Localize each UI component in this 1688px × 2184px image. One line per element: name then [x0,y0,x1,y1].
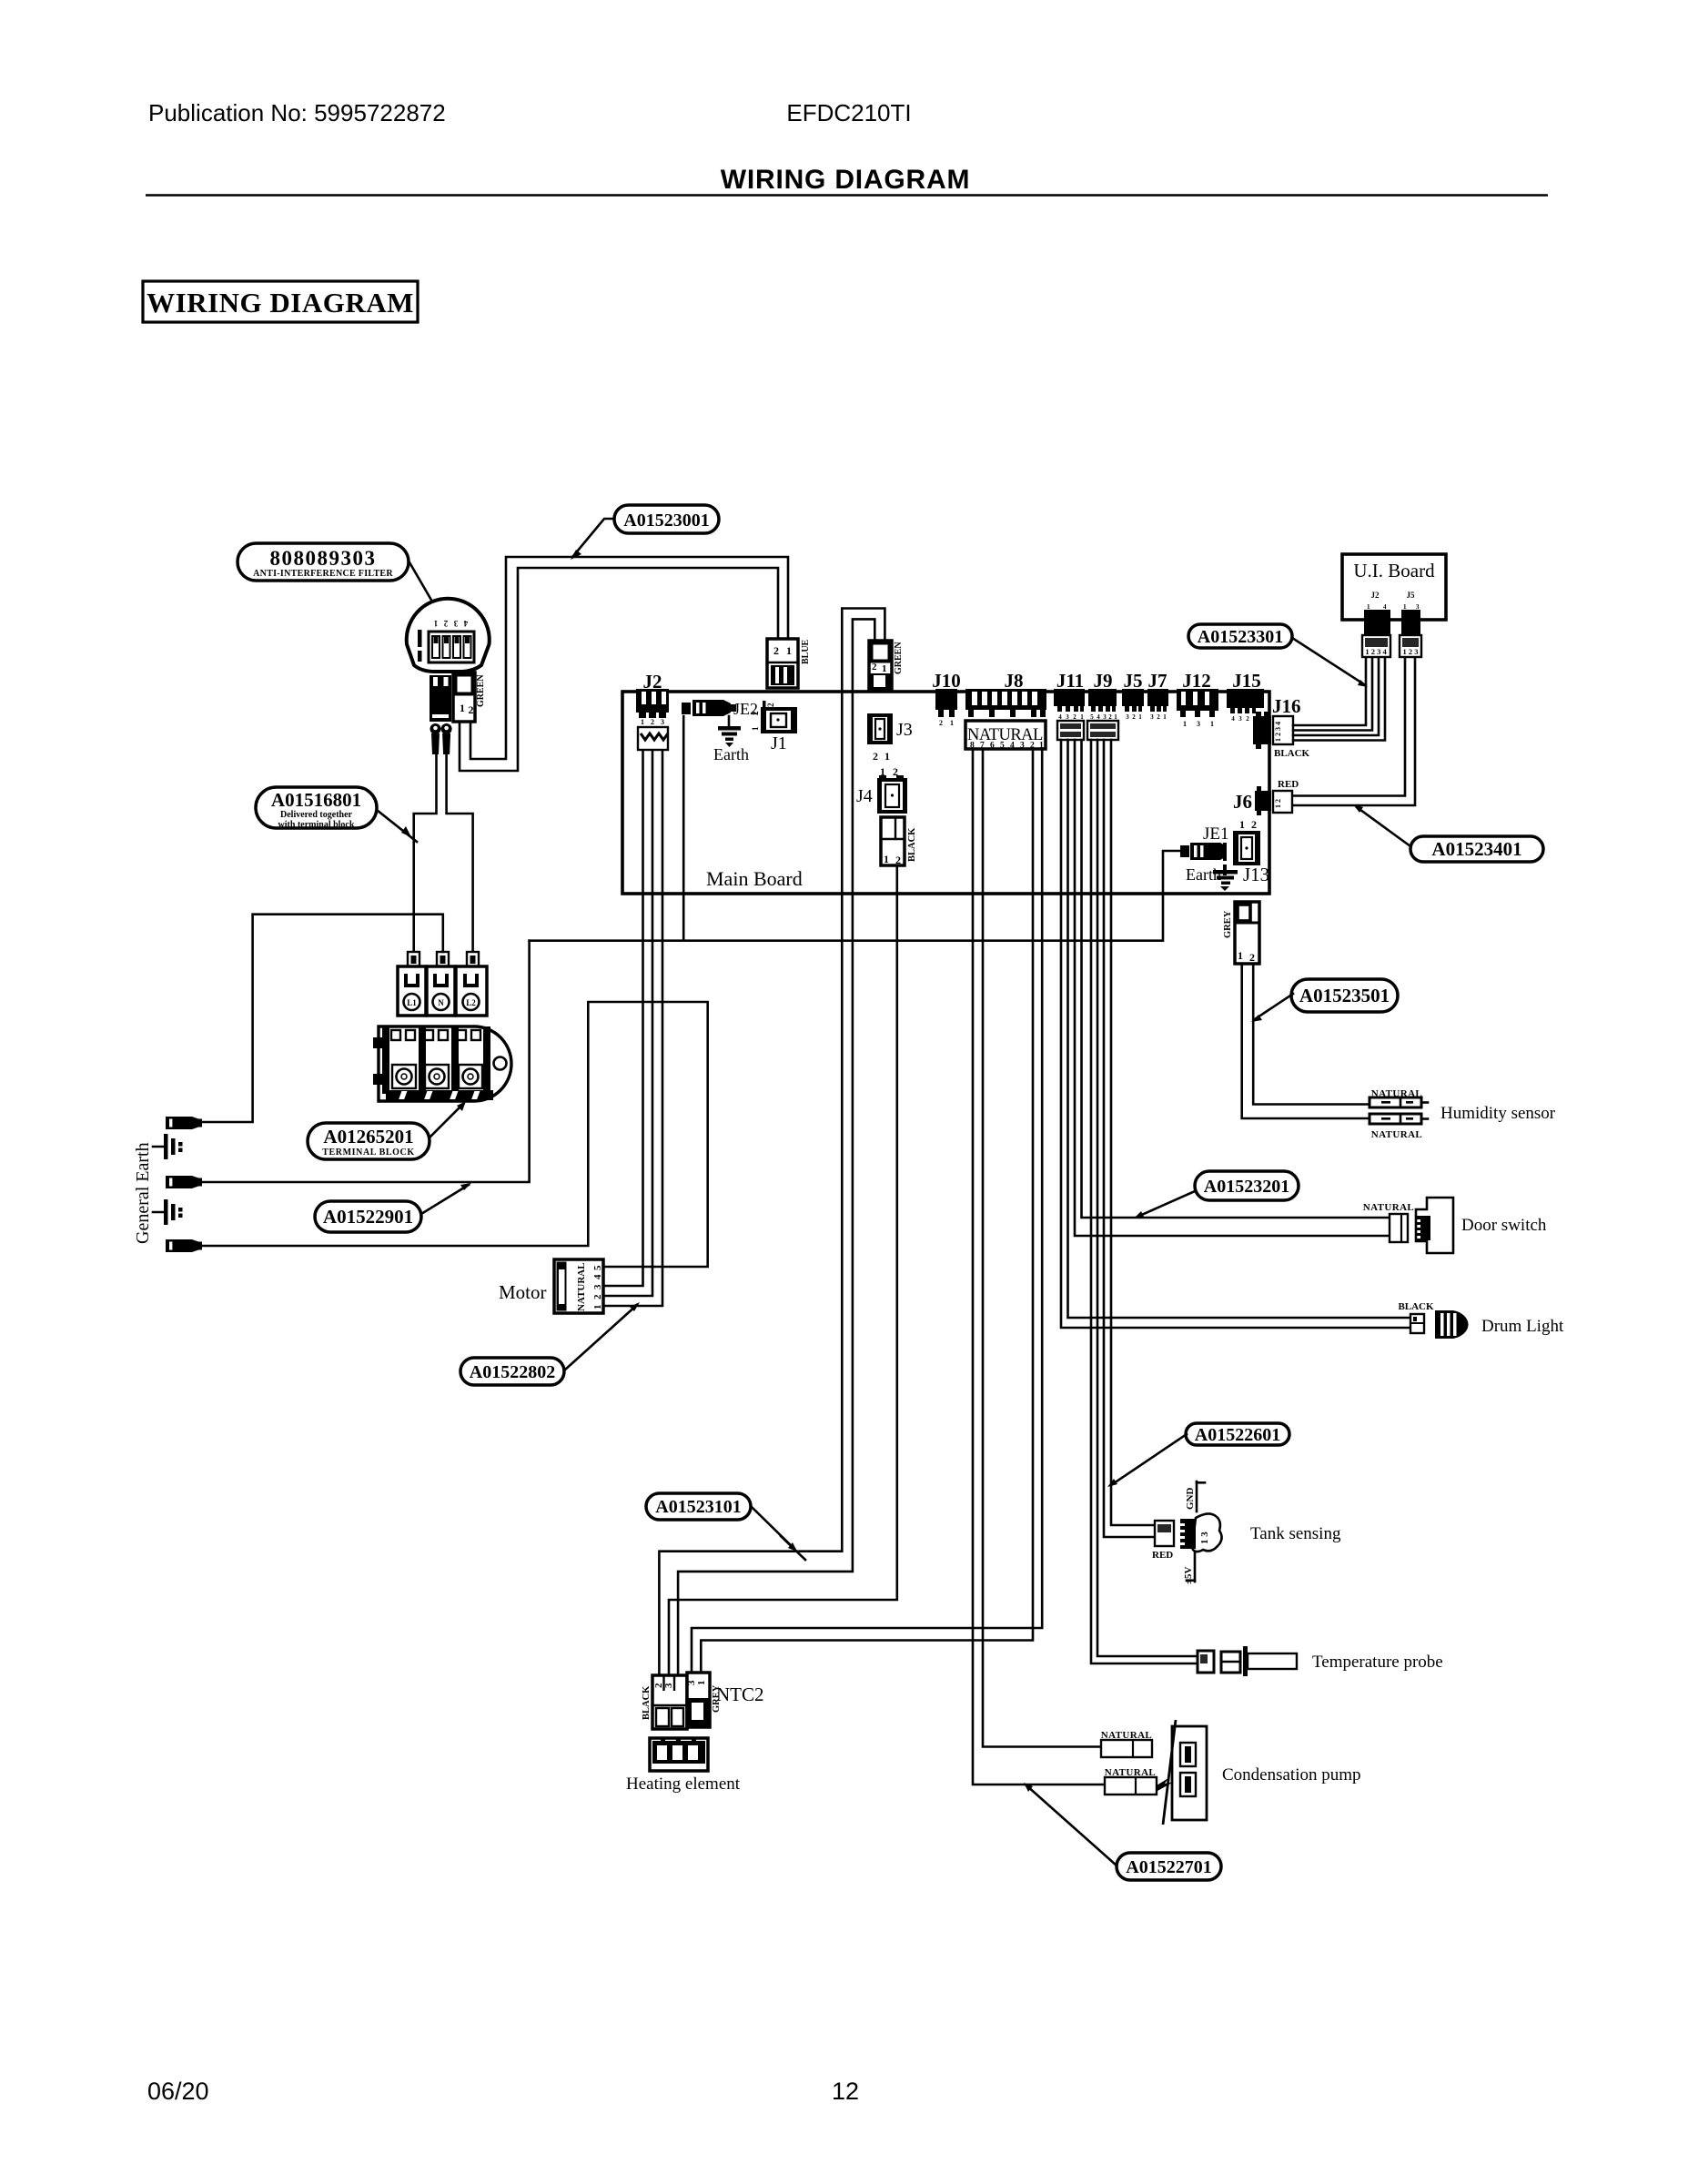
wire J11 pin2 to door switch lower [1075,740,1390,1236]
J7 connector [1147,689,1168,721]
svg-text:A01516801: A01516801 [271,789,361,811]
J10 connector [935,689,957,727]
svg-text:1: 1 [592,1305,603,1310]
wire NATURAL pin1 to NTC2 grey pin3 [692,749,1042,1673]
wire J11 pin1 to door switch upper [1082,740,1390,1218]
J13 connector [1233,831,1260,865]
svg-text:J5: J5 [1124,670,1143,692]
svg-text:A01265201: A01265201 [323,1126,413,1148]
J13 pin digits 1 2 [1239,818,1257,831]
svg-text:EFDC210TI: EFDC210TI [786,99,911,126]
svg-text:Earth: Earth [713,745,749,763]
svg-text:Heating element: Heating element [626,1774,741,1794]
callout A01522601 [1186,1423,1289,1445]
filter green connector pins 1 2 [453,672,475,722]
svg-text:3: 3 [1066,713,1069,721]
J11 mating connector box [1057,721,1084,740]
svg-text:5: 5 [1000,742,1005,751]
earth bus JE1 to spade2 [530,851,1180,941]
wire motor pin1 to J2 pin3 [603,750,662,1306]
wire spade2 to earth bus [201,941,530,1182]
terminal block screw 1 [392,1065,416,1088]
NTC2 grey connector [686,1673,710,1727]
NATURAL connector box at J8 [965,721,1046,751]
tank sensing contact block [1180,1519,1196,1549]
J1 connector [751,707,797,733]
svg-text:1: 1 [1183,720,1187,728]
svg-text:12: 12 [832,2078,859,2105]
JE1 earth symbol [1213,870,1238,891]
svg-text:3: 3 [1238,715,1242,723]
svg-text:1: 1 [433,619,438,628]
wire J11 pin3 to drum light upper [1068,740,1410,1318]
wire J9 pin1 to tank sensing upper [1111,740,1155,1525]
svg-text:1: 1 [1138,713,1142,721]
J9 connector [1088,689,1117,721]
svg-text:Delivered together: Delivered together [280,810,353,820]
svg-text:3: 3 [663,1683,674,1688]
svg-text:2: 2 [443,619,448,628]
terminal block screw 2 [425,1065,449,1088]
callout A01265201 terminal block [308,1123,430,1159]
terminal block body [373,1026,511,1101]
J9 mating connector box [1087,721,1118,740]
general earth spade 1 [166,1117,202,1129]
wire J6-2 to UI J5 [1293,657,1415,805]
boxed section title [143,281,418,322]
terminal block screw 3 [459,1065,482,1088]
svg-text:5: 5 [592,1265,603,1270]
svg-text:2: 2 [1251,818,1257,831]
wire filter green pin2 to BLUE connector (outer) [470,557,788,759]
drum light lamp [1435,1310,1469,1339]
svg-text:Publication No: 5995722872: Publication No: 5995722872 [148,99,446,126]
svg-text:1: 1 [950,719,954,727]
UI J5 pin digits [1403,603,1420,611]
svg-text:3: 3 [661,718,664,726]
door switch connector [1390,1214,1408,1242]
svg-text:1: 1 [786,644,792,657]
wire GREY pin2 to humidity sensor row1 [1253,964,1370,1105]
wire motor pin3 to J2 pin1 [603,750,643,1286]
wire BLACK connector to NTC2 pin3 [669,865,897,1675]
svg-text:1 3: 1 3 [1199,1532,1210,1544]
leader A01523501 [1251,994,1293,1022]
svg-text:JE1: JE1 [1203,824,1229,844]
svg-text:3: 3 [1103,713,1107,721]
svg-text:N: N [438,998,444,1007]
svg-text:J11: J11 [1056,670,1084,692]
svg-text:06/20: 06/20 [147,2078,209,2105]
GREY connector below J13 [1235,902,1259,964]
wire spade3 to motor pin5 earth [201,1002,708,1267]
door switch contact block [1416,1216,1430,1240]
U.I. Board box [1342,554,1446,620]
svg-text:2: 2 [1073,713,1076,721]
J11 connector [1054,689,1085,721]
svg-text:BLUE: BLUE [801,639,811,664]
wire spade1 to terminal N [201,915,443,1122]
leader A01523001 [571,519,614,560]
J8 connector [965,689,1046,727]
UI J5 connector [1400,610,1421,657]
BLUE connector at J1 [767,639,798,688]
callout A01522901 [315,1201,421,1232]
filter ring lug L2 [441,723,452,754]
svg-text:J7: J7 [1148,670,1167,692]
svg-text:A01523001: A01523001 [623,511,709,531]
callout A01523101 [646,1493,751,1520]
svg-text:4: 4 [1383,603,1387,611]
svg-text:L2: L2 [466,998,476,1007]
BLACK connector below J4 [881,817,905,866]
svg-text:1: 1 [1163,713,1167,721]
svg-text:2: 2 [873,750,878,763]
JE2 earth stub wire [682,716,685,941]
J5 connector [1122,689,1144,721]
svg-text:J1: J1 [771,733,787,753]
svg-text:2: 2 [872,662,877,672]
svg-text:TERMINAL BLOCK: TERMINAL BLOCK [322,1148,414,1158]
J12 connector [1177,689,1218,728]
svg-text:A01522601: A01522601 [1195,1425,1280,1445]
wire J9 pin5 to temperature probe lower [1091,740,1198,1663]
general earth fast-on tab 1 [153,1134,183,1159]
svg-text:J2: J2 [1371,591,1380,600]
svg-text:General Earth: General Earth [133,1142,153,1244]
svg-text:NTC2: NTC2 [716,1683,764,1705]
general earth spade 2 [166,1176,202,1188]
condensation pump connector upper [1101,1740,1152,1757]
svg-text:A01522901: A01522901 [323,1206,413,1228]
svg-text:1: 1 [1114,713,1117,721]
svg-text:5: 5 [1090,713,1094,721]
J3 pin digits 2 1 [873,750,890,763]
wire J16-3 to UI J2 [1293,657,1379,735]
leader A01265201 [430,1101,466,1137]
terminal block mounting hole [494,1057,507,1070]
svg-text:J16: J16 [1272,695,1301,717]
wire NATURAL pin7 to condensation pump upper [983,749,1101,1747]
callout A01523201 [1195,1171,1299,1200]
svg-text:2: 2 [751,711,760,715]
plug module L1 [398,952,426,1016]
svg-text:3: 3 [592,1284,603,1289]
svg-text:BLACK: BLACK [907,827,917,862]
general earth spade 3 [166,1239,202,1252]
JE2 earth spade [682,700,736,716]
callout A01523401 [1410,836,1543,862]
temperature probe body [1221,1646,1297,1676]
svg-text:2: 2 [766,703,775,707]
svg-text:4: 4 [463,619,468,628]
GREEN connector at board top [869,641,892,690]
svg-text:2: 2 [773,644,779,657]
callout A01522802 [460,1358,564,1385]
svg-text:WIRING DIAGRAM: WIRING DIAGRAM [147,287,414,318]
svg-text:1: 1 [882,663,887,674]
svg-text:2: 2 [592,1294,603,1299]
svg-text:J13: J13 [1243,864,1269,885]
anti-interference filter FL1 body [407,599,490,672]
header rule [146,194,1548,196]
svg-text:1 2 3: 1 2 3 [1403,647,1419,656]
svg-text:1: 1 [696,1681,707,1686]
wire filter green pin1 to BLUE connector (inner) [460,568,778,771]
svg-text:GREY: GREY [1223,910,1233,938]
leader A01523101 [751,1506,805,1560]
svg-text:2: 2 [939,719,943,727]
svg-text:3: 3 [1126,713,1129,721]
wire filter L2 to terminal L2 [447,754,473,952]
svg-text:2: 2 [1246,715,1249,723]
svg-text:with terminal block: with terminal block [278,820,355,830]
filter pin header with pins 1 2 3 4 [429,619,474,662]
svg-text:1: 1 [1239,818,1245,831]
UI J2 connector [1362,610,1390,657]
svg-text:2: 2 [1157,713,1160,721]
svg-text:GREEN: GREEN [476,674,486,707]
J3 connector [867,713,893,744]
svg-text:ANTI-INTERFERENCE FILTER: ANTI-INTERFERENCE FILTER [253,569,393,579]
callout A01516801 [256,787,377,830]
callout 808089303 anti-interference filter [238,543,409,581]
svg-text:2: 2 [651,718,654,726]
humidity sensor connector row2 [1370,1114,1428,1124]
J6 connector [1255,786,1292,815]
svg-text:J15: J15 [1232,670,1261,692]
door switch body [1416,1198,1453,1253]
plug module L2 [456,952,487,1016]
svg-text:J4: J4 [856,786,873,806]
svg-text:A01522701: A01522701 [1126,1857,1211,1877]
svg-text:1: 1 [884,750,890,763]
svg-text:4: 4 [1097,713,1100,721]
svg-text:BLACK: BLACK [642,1685,652,1720]
svg-text:4: 4 [592,1274,603,1279]
wire J9 pin4 to temperature probe upper [1097,740,1198,1656]
wire NATURAL pin2 to NTC2 grey pin1 [701,749,1033,1673]
svg-text:1: 1 [1238,949,1243,962]
svg-text:1: 1 [1210,720,1214,728]
tank sensing probe body [1192,1513,1222,1552]
leader 808089303 [409,562,444,622]
callout A01523301 [1188,624,1292,648]
svg-text:808089303: 808089303 [270,547,377,570]
svg-text:J5: J5 [1407,591,1416,600]
svg-text:A01523301: A01523301 [1198,627,1283,647]
svg-text:Tank sensing: Tank sensing [1250,1524,1341,1543]
svg-text:2: 2 [469,703,474,716]
svg-text:U.I. Board: U.I. Board [1353,560,1435,581]
wire filter L1 to terminal L1 [414,754,437,952]
JE2 pin marks [763,701,783,726]
temperature probe connector [1198,1651,1214,1673]
tank sensing RED connector [1155,1521,1174,1546]
JE1 earth spade [1180,843,1227,860]
svg-text:±5V: ±5V [1183,1566,1194,1584]
general earth fast-on tab 2 [153,1199,183,1225]
svg-text:A01523501: A01523501 [1299,985,1390,1006]
terminal block bottom hatch [386,1090,493,1100]
svg-text:1: 1 [1403,603,1407,611]
leader A01522901 [421,1183,471,1214]
svg-text:1: 1 [460,702,465,714]
svg-text:BLACK: BLACK [1398,1301,1434,1312]
svg-text:1: 1 [884,853,889,865]
svg-text:3: 3 [1020,742,1025,751]
svg-text:A01523101: A01523101 [655,1497,741,1517]
svg-text:2: 2 [1249,951,1255,964]
callout A01523501 [1291,979,1398,1012]
JE2 earth symbol [718,716,741,747]
svg-text:J8: J8 [1005,670,1024,692]
callout A01522701 [1117,1853,1221,1880]
main board outline [622,692,1269,894]
svg-text:1 2 3 4: 1 2 3 4 [1274,722,1282,742]
+5V lead tank sensing [1183,1552,1195,1584]
leader A01523401 [1353,804,1410,846]
svg-text:4: 4 [1231,715,1235,723]
svg-text:Earth: Earth [1186,865,1221,884]
svg-text:1 2 3 4: 1 2 3 4 [1365,647,1387,656]
wire J16-1 to UI J2 [1293,657,1366,725]
svg-text:NATURAL: NATURAL [1371,1129,1422,1140]
svg-text:1: 1 [1367,603,1370,611]
leader A01523301 [1292,638,1368,687]
wire J11 pin4 to drum light lower [1061,740,1410,1328]
svg-text:4: 4 [1058,713,1062,721]
wire GREY pin1 to humidity sensor row2 [1242,964,1370,1118]
svg-text:Condensation pump: Condensation pump [1222,1765,1361,1785]
svg-text:3: 3 [453,619,458,628]
svg-text:Humidity sensor: Humidity sensor [1440,1104,1556,1123]
svg-text:WIRING DIAGRAM: WIRING DIAGRAM [721,165,971,195]
motor connector [554,1259,603,1313]
plug module N [427,952,455,1016]
wire J6-1 to UI J5 [1293,657,1405,796]
svg-text:J10: J10 [932,670,961,692]
svg-text:A01522802: A01522802 [470,1362,555,1382]
heating element [650,1737,708,1771]
callout A01523001 [614,505,719,533]
wire J9 pin2 to tank sensing lower [1104,740,1155,1537]
svg-text:Motor: Motor [499,1281,547,1303]
wire NATURAL pin8 to condensation pump lower [973,749,1105,1785]
svg-text:J12: J12 [1182,670,1211,692]
svg-text:1: 1 [641,718,644,726]
humidity sensor connector row1 [1370,1097,1428,1107]
leader A01516801 [377,810,417,842]
leader A01522701 [1024,1783,1117,1865]
svg-text:1: 1 [1080,713,1084,721]
svg-text:BLACK: BLACK [1274,748,1310,759]
svg-text:3: 3 [1150,713,1154,721]
J16 connector [1253,712,1293,749]
svg-text:2: 2 [1132,713,1136,721]
svg-text:NATURAL: NATURAL [1363,1202,1414,1213]
J15 connector [1227,689,1264,723]
svg-text:RED: RED [1152,1550,1173,1561]
filter ring lug L1 [430,723,441,754]
svg-text:Drum Light: Drum Light [1481,1317,1564,1336]
J4 pin digits 1 2 [880,765,898,778]
svg-text:J9: J9 [1094,670,1113,692]
svg-text:GREEN: GREEN [894,642,904,674]
GND lead tank sensing [1185,1481,1205,1512]
svg-text:4: 4 [1010,742,1015,751]
leader A01523201 [1134,1191,1195,1218]
svg-text:Temperature probe: Temperature probe [1312,1653,1443,1672]
svg-text:GND: GND [1185,1488,1196,1511]
condensation pump body [1157,1720,1207,1825]
svg-text:Main Board: Main Board [706,867,803,890]
svg-text:RED: RED [1278,779,1299,790]
wire green loop outer to NTC2 pin2 [659,609,884,1676]
wire motor pin2 to J2 pin2 [603,750,652,1296]
svg-text:A01523201: A01523201 [1204,1177,1289,1197]
svg-text:L1: L1 [407,998,417,1007]
leader A01522601 [1107,1434,1187,1487]
J2 connector [636,689,669,750]
svg-text:A01523401: A01523401 [1431,838,1521,860]
svg-text:1: 1 [751,726,760,731]
J4 connector [877,775,907,814]
svg-text:NATURAL: NATURAL [576,1262,587,1311]
condensation pump connector lower [1105,1777,1157,1795]
UI J2 pin digits [1367,603,1387,611]
svg-text:J6: J6 [1233,791,1252,813]
svg-text:6: 6 [990,742,995,751]
wire green loop inner to NTC2 pin1 [678,619,874,1675]
drum light connector [1410,1314,1424,1333]
wire J16-4 to UI J2 [1293,657,1385,741]
svg-text:J3: J3 [896,720,913,740]
JE1 pin separator [1223,843,1227,875]
svg-text:Door switch: Door switch [1461,1216,1547,1235]
svg-text:3: 3 [1416,603,1420,611]
svg-text:1 2: 1 2 [1274,799,1282,808]
svg-text:3: 3 [1197,720,1200,728]
svg-text:2: 2 [1108,713,1112,721]
NTC2 black connector pins 2 3 1 [652,1675,687,1729]
wire J16-2 to UI J2 [1293,657,1372,731]
leader A01522802 [564,1302,640,1370]
filter output black connector [430,675,451,722]
